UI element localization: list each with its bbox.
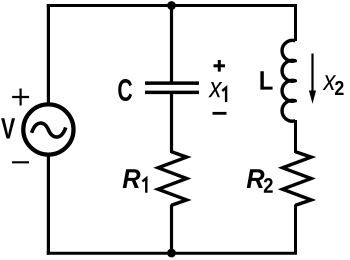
label C — [118, 79, 132, 101]
wire top — [47, 4, 297, 7]
current arrow x2 — [309, 54, 316, 104]
minus label of source — [12, 161, 29, 163]
wire right upper — [294, 4, 297, 41]
wire middle upper — [170, 6, 173, 82]
resistor R1 — [158, 152, 187, 206]
label x1 subscript — [222, 88, 226, 103]
label V — [1, 118, 15, 138]
wire right mid — [294, 120, 297, 153]
inductor L1 — [282, 40, 295, 121]
plus label of source — [12, 89, 29, 106]
wire bottom — [47, 252, 297, 255]
voltage source V1 — [23, 104, 73, 154]
plus label of x1 — [214, 60, 226, 72]
label R2 — [247, 169, 265, 188]
wire middle mid — [170, 94, 173, 153]
capacitor C1 top plate — [145, 81, 199, 85]
label R2 subscript — [264, 178, 273, 193]
junction dot bottom — [167, 249, 176, 258]
minus label of x1 — [213, 112, 227, 115]
resistor R2 — [283, 152, 312, 206]
label L — [260, 71, 272, 89]
wire left lower — [47, 155, 50, 255]
label R1 — [123, 169, 141, 188]
label R1 subscript — [142, 178, 146, 193]
wire right lower — [294, 205, 297, 254]
wire left upper — [47, 4, 50, 104]
capacitor C1 bottom plate — [145, 91, 199, 95]
label x1 — [208, 82, 222, 97]
junction dot top — [167, 1, 176, 10]
label x2 — [323, 75, 337, 90]
wire middle lower — [170, 205, 173, 254]
label x2 subscript — [335, 81, 344, 95]
